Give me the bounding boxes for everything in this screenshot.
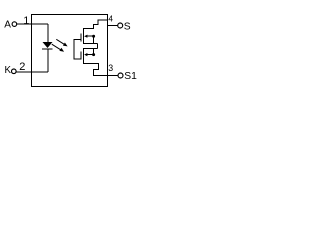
- MOSFET Q1 channel bar: [83, 28, 85, 44]
- MOSFET Q1 source stub: [84, 42, 98, 44]
- LED D1 cathode bar: [42, 48, 53, 50]
- MOSFET Q1 drain wire staircase to pin4: [84, 20, 108, 29]
- wire Q1 body to source: [93, 36, 95, 43]
- svg-text:1: 1: [23, 15, 29, 27]
- LED D1 cathode wire: [47, 50, 49, 72]
- wire Q2 body to source: [93, 49, 95, 55]
- MOSFET Q1 body arrow: [84, 35, 94, 38]
- terminal S1 circle: [118, 73, 123, 78]
- terminal S circle: [118, 23, 123, 28]
- light arrow upper: [56, 39, 67, 46]
- svg-text:4: 4: [108, 14, 113, 24]
- MOSFET Q2 body arrow: [84, 53, 94, 56]
- light arrow lower: [52, 44, 64, 52]
- MOSFET Q2 source stub: [84, 48, 98, 50]
- MOSFET Q1 gate bar: [80, 34, 82, 42]
- wire pin4 outside: [108, 24, 118, 26]
- svg-text:S1: S1: [124, 71, 137, 82]
- junction dot Q2 body-source: [92, 53, 95, 56]
- svg-text:S: S: [124, 21, 131, 32]
- svg-text:K: K: [5, 65, 12, 76]
- svg-text:2: 2: [19, 61, 25, 73]
- terminal A circle: [12, 22, 17, 27]
- MOSFET Q2 channel bar: [83, 48, 85, 64]
- svg-text:A: A: [4, 19, 11, 30]
- junction dot Q1 body-source: [92, 35, 95, 38]
- MOSFET Q2 drain wire staircase to pin3: [84, 63, 108, 75]
- package outline box: [31, 14, 107, 86]
- wire pin3 outside: [108, 74, 118, 76]
- MOSFET Q2 gate bar: [80, 52, 82, 60]
- terminal K circle: [12, 69, 17, 74]
- LED D1 triangle: [43, 42, 53, 48]
- LED D1 anode wire: [47, 24, 49, 42]
- wire pin2 K to LED cathode: [16, 71, 48, 73]
- svg-text:3: 3: [108, 63, 113, 73]
- gate bus wire: [74, 40, 81, 60]
- wire common source jog: [97, 43, 99, 48]
- wire pin1 A to LED anode: [17, 23, 48, 25]
